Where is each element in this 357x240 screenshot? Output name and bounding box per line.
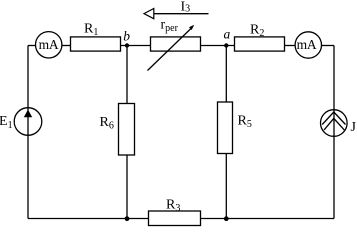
resistor R1 <box>71 21 121 51</box>
resistor R3 <box>149 198 201 226</box>
svg-text:a: a <box>224 27 231 42</box>
wire right rail <box>333 46 335 219</box>
current arrow I3 <box>144 0 209 19</box>
svg-text:rper: rper <box>161 18 179 35</box>
svg-text:E1: E1 <box>0 114 13 131</box>
svg-text:mA: mA <box>39 37 59 52</box>
svg-text:R5: R5 <box>238 114 252 131</box>
ammeter PA1 (left mA) <box>36 32 62 58</box>
junction node (bottom left, x=127) <box>125 216 130 221</box>
wire node b down to R6 <box>126 46 128 104</box>
svg-text:J: J <box>351 120 357 135</box>
node a <box>224 27 231 48</box>
svg-text:I3: I3 <box>181 0 191 15</box>
wire mA1 to R1 <box>63 45 71 47</box>
resistor R2 <box>235 23 285 52</box>
wire R2 to mA2 <box>285 45 295 47</box>
svg-text:R6: R6 <box>100 115 114 132</box>
source E1 <box>0 108 42 136</box>
wire bottom rail <box>28 218 334 220</box>
wire left rail <box>27 46 29 219</box>
resistor R6 <box>100 104 135 156</box>
svg-text:R2: R2 <box>250 23 264 40</box>
ammeter PA2 (right mA) <box>295 32 321 58</box>
junction node (bottom right, x=226) <box>224 216 229 221</box>
svg-text:R1: R1 <box>84 21 98 38</box>
rheostat r_per (variable resistor) <box>148 18 201 71</box>
svg-text:R3: R3 <box>166 198 180 215</box>
wire R5 down to bottom rail <box>225 154 227 219</box>
resistor R5 <box>218 102 252 154</box>
wire rper to R2 (through node a) <box>201 45 235 47</box>
svg-text:b: b <box>123 29 130 44</box>
wire R1 to rper (through node b) <box>121 45 151 47</box>
wire top-left stub <box>28 45 36 47</box>
wire top-right stub <box>322 45 335 47</box>
current source J <box>321 110 357 137</box>
wire R6 down to bottom rail <box>126 155 128 219</box>
wire node a down to R5 <box>225 46 227 103</box>
node b <box>123 29 130 48</box>
svg-text:mA: mA <box>297 37 317 52</box>
